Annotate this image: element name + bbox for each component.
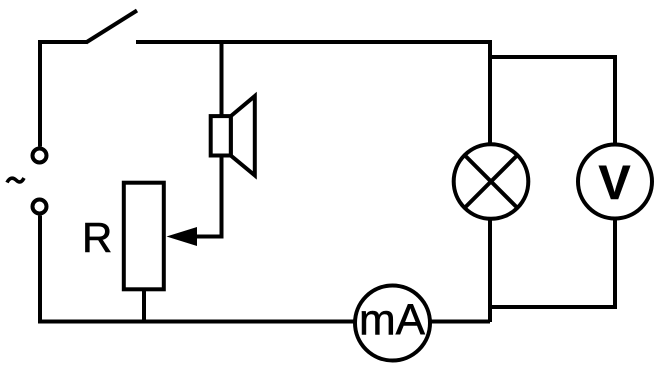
svg-text:mA: mA: [359, 296, 426, 345]
svg-text:R: R: [82, 214, 112, 261]
svg-text:V: V: [598, 157, 630, 210]
